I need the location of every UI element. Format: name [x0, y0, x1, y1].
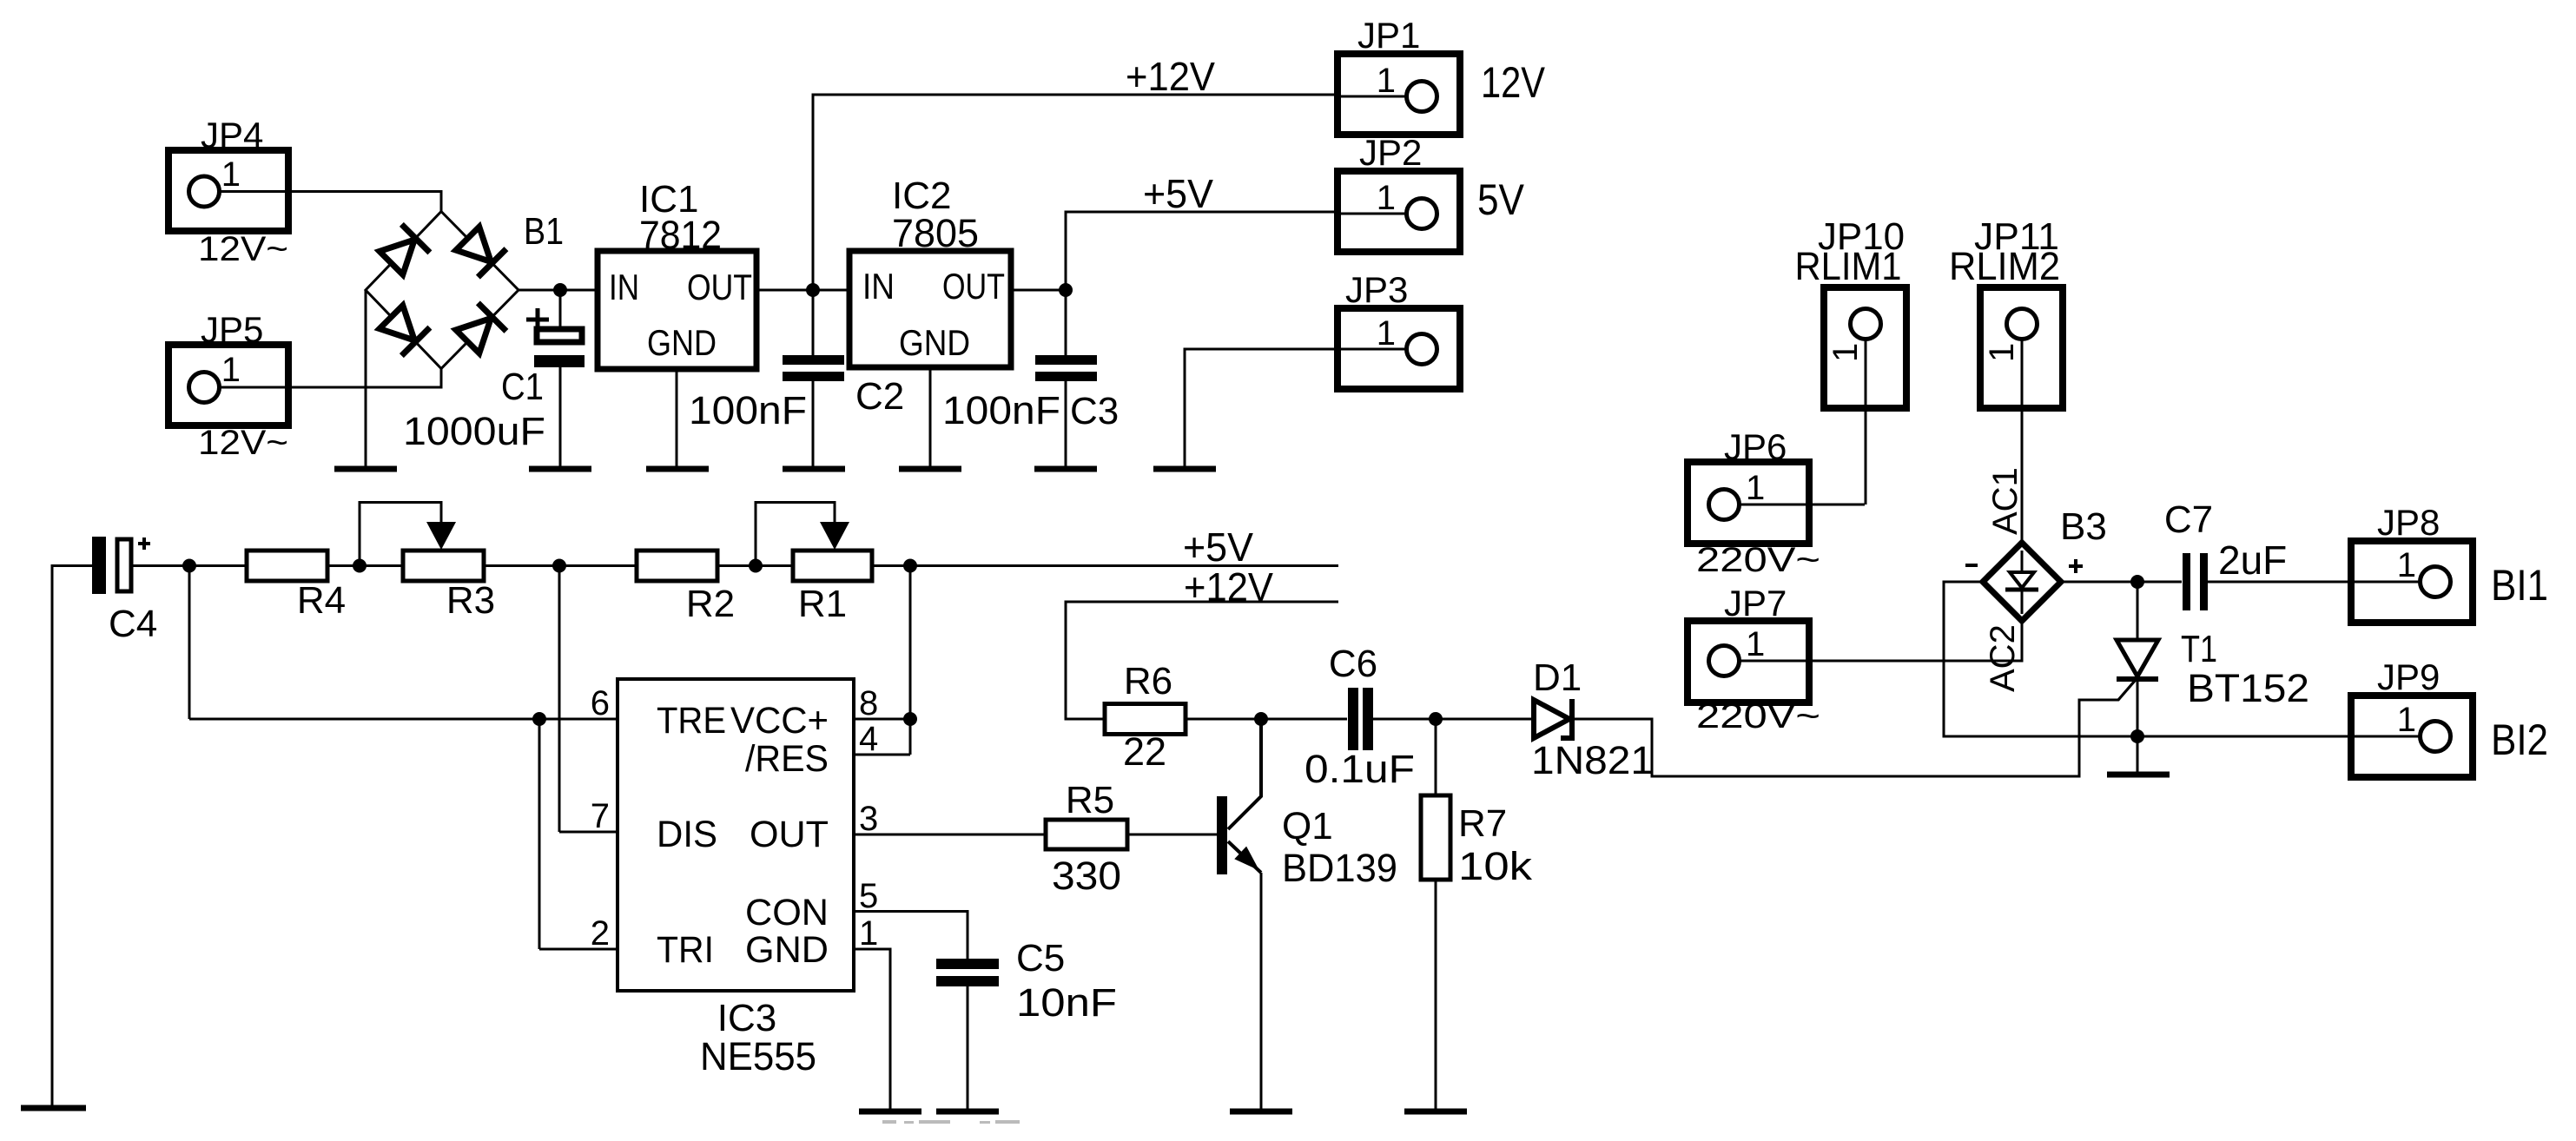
- svg-text:1: 1: [1983, 343, 2021, 362]
- svg-text:R1: R1: [798, 583, 847, 625]
- wire C6 to D1: [1373, 718, 1534, 721]
- svg-text:VCC+: VCC+: [730, 700, 829, 742]
- wire C3 top: [1065, 290, 1067, 355]
- connector JP7 pin circle: [1709, 646, 1740, 676]
- wire +12V to JP1: [1338, 96, 1422, 98]
- svg-text:IN: IN: [609, 267, 639, 307]
- svg-text:C6: C6: [1329, 643, 1377, 685]
- wire R1 to +5V rail: [872, 564, 1338, 567]
- wire pin 3 to R5: [854, 834, 1046, 836]
- svg-text:+5V: +5V: [1143, 171, 1213, 216]
- wire IC2 GND to ground: [929, 367, 932, 466]
- connector JP3 box: [1338, 308, 1460, 389]
- svg-text:1: 1: [859, 914, 878, 953]
- C4 plus sign: [138, 542, 150, 545]
- bridge rectifier B1 diamond: [366, 212, 519, 369]
- svg-text:C4: C4: [109, 603, 157, 645]
- svg-text:BI1: BI1: [2491, 561, 2548, 610]
- ground C5: [936, 1109, 999, 1115]
- connector JP4 pin circle: [189, 176, 220, 207]
- svg-text:AC1: AC1: [1986, 467, 2024, 535]
- R3 wiper arrow: [360, 503, 441, 566]
- C1 plus sign: [526, 318, 549, 322]
- resistor R2 body: [637, 551, 717, 581]
- svg-text:JP8: JP8: [2377, 502, 2440, 543]
- capacitor C5 plates: [936, 959, 999, 969]
- junction R2/R1 wiper node: [749, 559, 763, 573]
- svg-text:1000uF: 1000uF: [403, 409, 545, 453]
- wire JP4 pin1 to B1 top: [219, 192, 441, 212]
- svg-text:R6: R6: [1124, 660, 1172, 702]
- svg-text:220V~: 220V~: [1696, 697, 1820, 735]
- wire JP9 pin1: [2353, 735, 2435, 738]
- wire C3 bottom to ground: [1065, 381, 1067, 466]
- wire VCC to pin8/pin4: [909, 566, 912, 755]
- R1 wiper arrow: [756, 503, 835, 566]
- wire R6 to C6: [1186, 718, 1347, 721]
- svg-text:2: 2: [591, 914, 610, 953]
- Q1 emitter arrow: [1234, 847, 1259, 871]
- svg-text:RLIM2: RLIM2: [1949, 244, 2060, 288]
- ground C3: [1034, 466, 1097, 472]
- junction C6/R7 node: [1429, 712, 1443, 726]
- wire +5V riser: [1066, 212, 1338, 290]
- svg-text:1: 1: [1377, 314, 1396, 353]
- wire C7 to JP8: [2208, 581, 2421, 584]
- wire Q1 emitter to ground: [1260, 873, 1263, 1111]
- svg-text:+12V: +12V: [1184, 564, 1273, 610]
- svg-text:3: 3: [859, 800, 878, 838]
- regulator IC1 box: [598, 251, 756, 369]
- connector JP9 pin circle: [2421, 722, 2451, 752]
- junction C4/R4/TRE: [182, 559, 196, 573]
- svg-text:C7: C7: [2164, 498, 2213, 541]
- svg-text:1: 1: [1826, 343, 1865, 362]
- svg-text:AC2: AC2: [1984, 624, 2022, 692]
- junction pin8 node: [903, 712, 917, 726]
- capacitor C1 top plate: [537, 329, 582, 342]
- connector JP9 box: [2351, 696, 2473, 777]
- svg-text:GND: GND: [647, 322, 717, 363]
- connector JP5 box: [168, 345, 288, 425]
- svg-text:GND: GND: [899, 322, 970, 363]
- capacitor C4 right plate: [117, 539, 131, 591]
- svg-text:5: 5: [859, 877, 878, 915]
- resistor R4 body: [247, 551, 327, 581]
- svg-text:D1: D1: [1533, 656, 1582, 699]
- svg-text:7805: 7805: [892, 211, 979, 255]
- svg-text:+12V: +12V: [1126, 54, 1215, 99]
- svg-text:JP6: JP6: [1724, 426, 1787, 467]
- potentiometer R1 body: [793, 551, 872, 581]
- svg-text:10k: 10k: [1458, 844, 1533, 888]
- svg-text:JP5: JP5: [201, 309, 263, 350]
- wire +5V to JP2: [1338, 213, 1422, 215]
- connector JP10 pin circle: [1851, 309, 1881, 340]
- connector JP2 pin circle: [1407, 199, 1437, 229]
- connector JP10 box: [1824, 287, 1906, 408]
- svg-text:220V~: 220V~: [1696, 541, 1820, 579]
- junction B1+/C1: [553, 283, 567, 297]
- wire JP10 to JP6: [1865, 324, 1867, 505]
- wire IC2 OUT to C3: [1011, 289, 1066, 292]
- svg-text:1N821: 1N821: [1531, 738, 1654, 782]
- svg-text:OUT: OUT: [750, 814, 829, 855]
- connector JP1 pin circle: [1407, 82, 1437, 112]
- resistor R7 body: [1421, 795, 1450, 880]
- svg-text:100nF: 100nF: [942, 388, 1060, 432]
- svg-text:+5V: +5V: [1183, 524, 1253, 570]
- svg-text:12V: 12V: [1481, 58, 1546, 107]
- svg-text:1: 1: [1377, 179, 1396, 217]
- svg-text:GND: GND: [745, 929, 829, 971]
- svg-text:7: 7: [591, 797, 610, 835]
- ground JP3: [1153, 466, 1216, 472]
- wire C4 left to ground: [52, 566, 92, 1106]
- svg-text:1: 1: [1377, 62, 1396, 100]
- bridge B3 diamond: [1983, 543, 2061, 621]
- svg-text:12V~: 12V~: [198, 230, 288, 268]
- connector JP8 box: [2351, 541, 2473, 623]
- wire R3 to R2: [483, 564, 637, 567]
- svg-text:1: 1: [2397, 701, 2416, 739]
- wire B1 minus to ground: [365, 290, 367, 466]
- wire C5 to ground: [967, 986, 969, 1111]
- svg-text:1: 1: [221, 351, 241, 389]
- ground C4: [21, 1105, 86, 1111]
- B1 diode bottom-left: [377, 303, 430, 356]
- connector JP3 pin circle: [1407, 334, 1437, 365]
- svg-text:JP7: JP7: [1724, 583, 1787, 623]
- svg-text:R2: R2: [686, 583, 735, 625]
- svg-text:JP2: JP2: [1359, 132, 1422, 173]
- wire C2 top: [812, 290, 815, 355]
- svg-text:R3: R3: [446, 579, 495, 622]
- resistor R5 body: [1046, 820, 1127, 849]
- svg-text:T1: T1: [2181, 628, 2217, 670]
- junction IC2out/C3/+5V: [1059, 283, 1073, 297]
- wire JP11 to B3 AC1: [2021, 324, 2024, 543]
- svg-text:1: 1: [1746, 469, 1765, 507]
- ground Q1: [1230, 1109, 1292, 1115]
- junction R6/Q1 collector: [1254, 712, 1268, 726]
- connector JP11 pin circle: [2007, 309, 2038, 340]
- capacitor C6 plates: [1348, 688, 1358, 750]
- Q1 collector: [1228, 719, 1261, 829]
- svg-text:7812: 7812: [639, 213, 722, 257]
- wire pin 2: [539, 948, 618, 951]
- svg-text:12V~: 12V~: [198, 424, 288, 462]
- svg-text:JP3: JP3: [1345, 269, 1408, 310]
- ground R7: [1404, 1109, 1467, 1115]
- svg-text:DIS: DIS: [657, 814, 717, 855]
- connector JP1 box: [1338, 54, 1460, 135]
- svg-text:22: 22: [1123, 729, 1166, 774]
- connector JP8 pin circle: [2421, 567, 2451, 597]
- wire JP8 pin1: [2353, 581, 2435, 584]
- wire DIS riser: [558, 566, 561, 833]
- svg-text:C1: C1: [501, 366, 544, 408]
- connector JP2 box: [1338, 171, 1460, 252]
- diode D1 triangle: [1534, 700, 1569, 738]
- svg-text:JP1: JP1: [1357, 15, 1420, 56]
- svg-text:8: 8: [859, 684, 878, 722]
- wire JP3 to ground: [1185, 349, 1422, 466]
- regulator IC2 box: [849, 251, 1011, 367]
- svg-text:IN: IN: [862, 266, 895, 307]
- ground B1: [334, 466, 397, 472]
- svg-text:1: 1: [221, 155, 241, 194]
- svg-text:OUT: OUT: [687, 267, 752, 307]
- wire JP7 to B3 AC2: [1724, 621, 2022, 661]
- svg-text:330: 330: [1052, 854, 1121, 898]
- wire C4 to R4: [131, 564, 247, 567]
- connector JP7 box: [1688, 621, 1809, 702]
- wire pin 8: [854, 718, 910, 721]
- wire R4 to R3: [327, 564, 403, 567]
- svg-text:10nF: 10nF: [1016, 980, 1117, 1025]
- ground IC1: [646, 466, 709, 472]
- wire pin 4: [854, 754, 910, 756]
- svg-text:C3: C3: [1070, 390, 1119, 432]
- wire R5 to Q1 base: [1127, 834, 1217, 836]
- timer IC3 box: [618, 679, 854, 991]
- svg-text:IC3: IC3: [717, 997, 776, 1039]
- svg-text:OUT: OUT: [942, 266, 1005, 307]
- svg-text:BI2: BI2: [2491, 716, 2548, 764]
- wire +12V riser: [813, 95, 1338, 290]
- svg-text:NE555: NE555: [700, 1034, 816, 1078]
- wire D1 to T1 gate: [1574, 681, 2135, 776]
- junction IC1out/C2/+12V: [806, 283, 820, 297]
- svg-text:RLIM1: RLIM1: [1795, 244, 1902, 288]
- diode D1 cathode: [1561, 699, 1572, 738]
- transistor Q1 base bar: [1217, 796, 1227, 874]
- wire T1 cathode: [2137, 681, 2139, 772]
- wire +12V mid rail: [1066, 602, 1338, 719]
- ground T1: [2107, 772, 2170, 778]
- connector JP4 box: [168, 150, 288, 231]
- junction T1 cathode/BI2: [2130, 729, 2144, 743]
- B3 plus sign: [2069, 564, 2083, 568]
- wire R7 to ground: [1435, 880, 1437, 1111]
- thyristor T1 triangle: [2117, 640, 2158, 676]
- svg-text:B3: B3: [2060, 505, 2107, 548]
- ground C1: [529, 466, 591, 472]
- capacitor C1 bottom plate: [534, 355, 585, 367]
- B1 diode top-right: [453, 224, 506, 277]
- connector JP11 box: [1980, 287, 2063, 408]
- ground IC2: [899, 466, 961, 472]
- wire pin 6: [539, 718, 618, 721]
- connector JP6 pin circle: [1709, 490, 1740, 520]
- wire IC1 GND to ground: [676, 369, 678, 466]
- svg-text:R5: R5: [1066, 779, 1114, 821]
- svg-text:B1: B1: [524, 210, 564, 253]
- junction R1/VCC node: [903, 559, 917, 573]
- wire TRE row: [189, 718, 539, 721]
- connector JP5 pin circle: [189, 373, 220, 403]
- potentiometer R3 body: [403, 551, 484, 581]
- svg-text:/RES: /RES: [745, 738, 829, 780]
- connector JP6 box: [1688, 462, 1809, 544]
- wire JP6 pin1: [1724, 504, 1865, 506]
- junction TRE/TRI node: [532, 712, 546, 726]
- svg-text:4: 4: [859, 720, 878, 758]
- B3 minus sign: [1965, 564, 1978, 567]
- svg-text:Q1: Q1: [1282, 805, 1333, 848]
- B1 diode bottom-right: [453, 303, 506, 356]
- ghost text fragment: [882, 1120, 1020, 1124]
- resistor R6 body: [1105, 704, 1186, 735]
- svg-text:1: 1: [2397, 546, 2416, 584]
- wire T1 anode: [2137, 582, 2139, 640]
- svg-text:1: 1: [1746, 625, 1765, 663]
- capacitor C4 left plate: [92, 537, 106, 594]
- wire B3 plus to C7: [2061, 581, 2182, 584]
- T1 gate lead: [2118, 681, 2135, 700]
- wire C2 bottom to ground: [812, 381, 815, 466]
- svg-text:BD139: BD139: [1282, 846, 1397, 890]
- wire IC1 OUT to IC2 IN: [756, 289, 849, 292]
- svg-text:C5: C5: [1016, 937, 1065, 979]
- wire pin 5 to C5: [854, 912, 968, 960]
- wire node to pin6 row: [188, 566, 191, 720]
- B1 diode top-left: [377, 224, 430, 277]
- wire R2 to R1: [717, 564, 793, 567]
- junction R3/R2/DIS node: [552, 559, 566, 573]
- svg-text:R7: R7: [1458, 802, 1507, 845]
- svg-text:C2: C2: [855, 375, 904, 418]
- svg-text:R4: R4: [297, 579, 346, 622]
- thyristor T1 cathode bar: [2117, 676, 2158, 682]
- capacitor C2 plates: [783, 355, 844, 365]
- wire pin 1 to ground: [854, 949, 890, 1111]
- svg-text:BT152: BT152: [2187, 666, 2309, 710]
- wire R7 top: [1435, 719, 1437, 795]
- svg-text:TRI: TRI: [657, 929, 714, 971]
- wire C1 bottom to ground: [559, 367, 562, 466]
- svg-text:TRE: TRE: [657, 700, 726, 742]
- svg-text:JP9: JP9: [2377, 656, 2440, 697]
- svg-text:CON: CON: [745, 892, 829, 933]
- capacitor C3 plates: [1035, 355, 1097, 365]
- wire BI2 node to JP9: [2137, 735, 2421, 738]
- capacitor C7 plates: [2183, 553, 2190, 610]
- junction B3+/T1 anode: [2130, 575, 2144, 589]
- svg-text:100nF: 100nF: [689, 388, 807, 432]
- wire pin 7: [559, 831, 618, 834]
- svg-text:0.1uF: 0.1uF: [1305, 747, 1415, 791]
- wire B3 minus to BI2 node: [1944, 582, 2137, 736]
- Q1 emitter: [1228, 841, 1261, 873]
- svg-text:2uF: 2uF: [2218, 538, 2287, 583]
- wire B1 plus to IC1 IN: [519, 289, 598, 292]
- ground IC3 pin1: [859, 1109, 921, 1115]
- wire JP5 pin1 to B1 bottom: [219, 369, 441, 388]
- ground C2: [783, 466, 845, 472]
- svg-text:5V: 5V: [1477, 175, 1525, 224]
- B3 inner diode: [2021, 551, 2024, 572]
- junction R4/R3 wiper node: [353, 559, 367, 573]
- wire C1 top: [559, 290, 562, 328]
- svg-text:JP4: JP4: [201, 115, 263, 155]
- wire TRI drop: [538, 719, 541, 949]
- svg-text:6: 6: [591, 684, 610, 722]
